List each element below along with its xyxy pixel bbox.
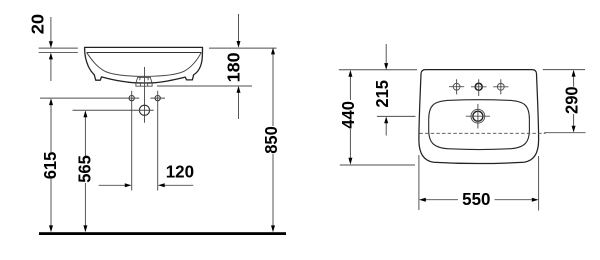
- dim 215: [385, 44, 387, 64]
- extension line plan bottom left (440): [340, 164, 415, 166]
- svg-text:215: 215: [372, 80, 392, 108]
- svg-text:440: 440: [338, 101, 358, 129]
- extension line y=86: [157, 85, 252, 87]
- svg-text:565: 565: [75, 155, 95, 183]
- dim 440: [349, 76, 351, 160]
- dim 565: [84, 116, 86, 227]
- ground line: [39, 232, 286, 235]
- fixing hole right: [155, 96, 160, 101]
- overflow drain circles: [471, 109, 485, 123]
- basin inner rim line: [87, 51, 202, 53]
- tap hole left: [453, 83, 460, 90]
- crosshair + extension line y=110: [73, 109, 154, 111]
- dim 120: [99, 184, 126, 186]
- dim 850: [272, 54, 274, 227]
- extension line plan top right (290): [543, 69, 585, 71]
- dim 180: [238, 14, 240, 42]
- basin inner bowl curve: [87, 52, 202, 76]
- extension lines plan width (550): [419, 155, 539, 211]
- plan inner basin: [429, 100, 530, 150]
- tap hole right: [497, 83, 504, 90]
- dim 20: [50, 17, 52, 42]
- svg-text:20: 20: [27, 14, 47, 35]
- extension line drain centre left (215): [377, 115, 416, 117]
- rim extension lines left (20): [39, 48, 78, 52]
- dim 615: [50, 104, 52, 227]
- svg-text:615: 615: [40, 151, 60, 179]
- svg-text:180: 180: [223, 52, 243, 82]
- tap hole centre: [475, 83, 482, 90]
- fixing hole vertical extension lines: [132, 91, 158, 191]
- svg-text:120: 120: [166, 162, 195, 182]
- drain outlet circle: [139, 105, 149, 115]
- centerline: [144, 67, 146, 123]
- dim 290: [573, 75, 575, 127]
- svg-text:290: 290: [562, 86, 582, 114]
- plan outer rim: [419, 70, 539, 164]
- fixing hole left: [129, 96, 134, 101]
- svg-text:550: 550: [462, 189, 491, 209]
- dashed overflow line: [419, 132, 545, 134]
- rim extension line right top: [209, 47, 277, 49]
- drain flange front: [136, 83, 152, 86]
- extension line overflow right (290): [544, 132, 585, 134]
- svg-text:850: 850: [261, 126, 281, 154]
- drain cup front: [136, 77, 152, 83]
- extension line plan top left (440/215): [339, 69, 417, 71]
- dim 550: [425, 199, 533, 201]
- crosshair + extension line y=98: [40, 97, 165, 99]
- basin outer profile: [85, 47, 203, 83]
